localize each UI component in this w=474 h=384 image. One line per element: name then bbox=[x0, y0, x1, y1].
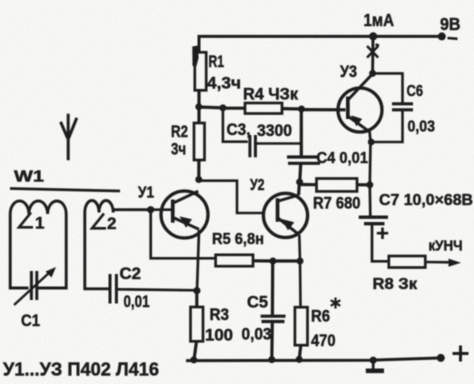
node D (V2 collector / R7) bbox=[296, 179, 303, 186]
wire antenna line bbox=[10, 189, 120, 192]
label L2 bbox=[92, 214, 106, 229]
svg-text:С4 0,01: С4 0,01 bbox=[317, 150, 369, 167]
svg-text:R6: R6 bbox=[311, 308, 330, 326]
wire L2 top to V1 base bbox=[113, 208, 151, 211]
svg-text:R8 Зк: R8 Зк bbox=[373, 276, 419, 293]
capacitor C3 bbox=[223, 108, 248, 142]
wire node E to node F bbox=[273, 259, 300, 262]
wire meter drop bbox=[371, 36, 374, 73]
svg-text:0,03: 0,03 bbox=[242, 326, 272, 344]
capacitor C2 bbox=[110, 274, 116, 304]
resistor R2 bbox=[194, 123, 205, 160]
capacitor C5 bbox=[271, 261, 275, 315]
node C (R4 right / C4 / V3 base) bbox=[298, 106, 305, 113]
wire node C to C4 bbox=[300, 109, 303, 156]
svg-text:0,01: 0,01 bbox=[124, 293, 150, 311]
capacitor C7 bbox=[359, 215, 388, 218]
wire node A to R2 bbox=[197, 107, 200, 123]
resistor R5 bbox=[216, 255, 253, 266]
node F (V2 emitter/R6) bbox=[297, 258, 304, 265]
node V1 emitter / C2 bbox=[193, 287, 200, 294]
node A (R1/R2/R4) bbox=[195, 103, 202, 110]
meter break X bbox=[367, 44, 379, 57]
resistor R7 bbox=[317, 179, 358, 192]
transistor V3 bbox=[338, 88, 382, 132]
wire L2 left/bottom bbox=[85, 213, 109, 289]
svg-text:С2: С2 bbox=[120, 265, 142, 283]
svg-text:У1: У1 bbox=[138, 185, 154, 202]
coil L1 bbox=[10, 201, 66, 214]
arrow to AF output bbox=[449, 259, 462, 267]
wire V1 collector to V2 base (jog) bbox=[199, 181, 263, 213]
svg-text:4,3ч: 4,3ч bbox=[207, 75, 241, 93]
svg-text:0,03: 0,03 bbox=[408, 119, 436, 136]
capacitor C4 bbox=[287, 157, 320, 163]
ground bbox=[370, 357, 377, 364]
svg-text:R2: R2 bbox=[171, 123, 188, 141]
wire V1 emitter column bbox=[197, 230, 199, 291]
variable capacitor C1 bbox=[31, 271, 36, 300]
resistor R1 bbox=[195, 52, 206, 90]
node V3 collector bbox=[369, 70, 376, 77]
node R3 bottom bbox=[190, 356, 197, 363]
wire node A to R4 bbox=[199, 105, 223, 109]
wire V2 emitter down bbox=[298, 235, 301, 261]
svg-text:С3,: С3, bbox=[227, 121, 251, 139]
node V1 collector bbox=[195, 176, 202, 183]
wire R2 to V1 collector node bbox=[197, 160, 200, 180]
node B (R4 left / C3) bbox=[219, 104, 226, 111]
node meter junction bbox=[369, 32, 377, 40]
svg-text:W1: W1 bbox=[14, 169, 44, 186]
svg-text:3ч: 3ч bbox=[171, 141, 186, 159]
node C6 bottom / V3 emitter bbox=[368, 139, 375, 146]
node R7 right bbox=[366, 181, 373, 188]
svg-text:кУНЧ: кУНЧ bbox=[429, 239, 463, 255]
terminal dot bottom right bbox=[437, 354, 445, 362]
svg-text:R1: R1 bbox=[209, 53, 225, 71]
wire V3 emitter column bbox=[368, 132, 372, 216]
svg-text:R3: R3 bbox=[210, 306, 230, 324]
svg-text:R4 ЧЗк: R4 ЧЗк bbox=[243, 86, 299, 104]
asterisk R6 bbox=[331, 298, 341, 309]
node V1 base bbox=[147, 206, 154, 213]
svg-text:1: 1 bbox=[35, 214, 44, 233]
svg-text:С1: С1 bbox=[21, 312, 40, 330]
label L1 bbox=[19, 213, 33, 228]
terminal dash top right bbox=[448, 37, 458, 40]
wire node D to V2 bbox=[297, 182, 301, 195]
svg-text:2: 2 bbox=[107, 214, 116, 233]
transistor V2 bbox=[263, 193, 307, 237]
node R6 bottom bbox=[296, 356, 303, 363]
svg-text:R7 680: R7 680 bbox=[313, 195, 361, 213]
antenna W1 bbox=[61, 114, 77, 160]
svg-text:С6: С6 bbox=[407, 83, 424, 100]
svg-text:R5 6,8н: R5 6,8н bbox=[212, 231, 264, 248]
svg-text:1мА: 1мА bbox=[364, 10, 395, 30]
svg-text:У1...УЗ П402 Л416: У1...УЗ П402 Л416 bbox=[3, 360, 159, 380]
coil L2 bbox=[85, 201, 113, 213]
svg-text:100: 100 bbox=[205, 327, 233, 345]
svg-text:У3: У3 bbox=[340, 63, 357, 81]
wire top rail bbox=[199, 36, 442, 52]
wire L1 loop left/bottom/right bbox=[10, 214, 66, 288]
svg-text:9В: 9В bbox=[440, 14, 461, 34]
wire V3 base bbox=[302, 108, 346, 111]
transistor V1 bbox=[161, 191, 208, 238]
node C5 bottom bbox=[268, 356, 275, 363]
svg-text:С7 10,0×68В: С7 10,0×68В bbox=[379, 192, 473, 209]
wire bottom rail bbox=[186, 358, 443, 361]
wire C4 to V2 collector node bbox=[300, 165, 301, 183]
wire V1 base to R5 bbox=[151, 210, 216, 259]
svg-text:У2: У2 bbox=[250, 177, 265, 194]
resistor R4 bbox=[245, 103, 282, 114]
svg-text:470: 470 bbox=[311, 332, 336, 350]
wire C2 right plate to V1 emitter node bbox=[118, 289, 197, 290]
label plus bbox=[453, 346, 469, 362]
svg-text:3300: 3300 bbox=[257, 122, 292, 140]
terminal dot top right bbox=[438, 32, 446, 40]
wire R1 to node A bbox=[197, 90, 200, 106]
svg-text:С5: С5 bbox=[247, 293, 268, 312]
capacitor C6 bbox=[371, 73, 403, 142]
resistor R3 bbox=[191, 307, 204, 341]
resistor R6 bbox=[295, 307, 308, 345]
wire C7 to R8 bbox=[372, 225, 389, 261]
node E (R5/C5) bbox=[269, 258, 276, 265]
resistor R8 bbox=[389, 256, 426, 268]
